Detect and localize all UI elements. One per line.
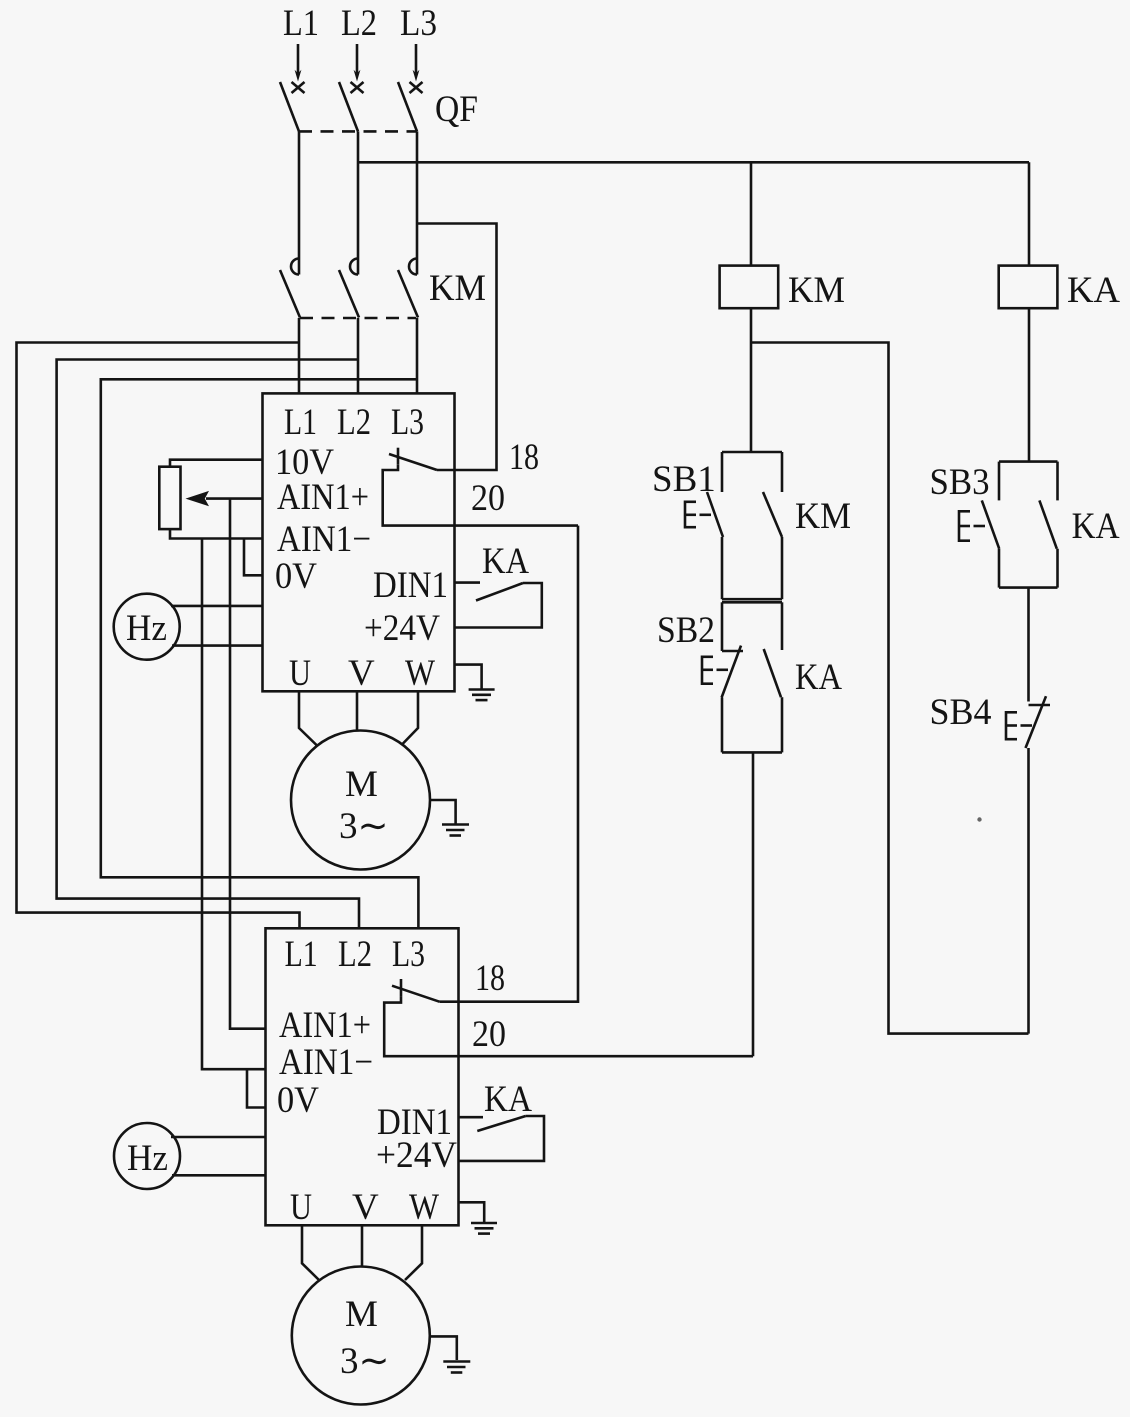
wire L2 from QF to KM <box>357 131 360 274</box>
svg-text:+24V: +24V <box>376 1135 457 1176</box>
pushbutton group SB1 bottom bar <box>722 598 782 601</box>
VFD1 DIN1 terminal stub <box>455 581 481 584</box>
KA aux contact (SB2 group) bottom stub <box>781 697 784 752</box>
svg-text:KM: KM <box>788 270 845 311</box>
wire L2 from KM to VFD1 <box>357 318 360 394</box>
SB2 fixed contact tick <box>722 650 743 653</box>
svg-text:L1: L1 <box>283 3 319 44</box>
KA aux contact (SB3 group) bottom stub <box>1056 549 1059 588</box>
ground VFD1 <box>455 665 495 701</box>
svg-text:L1: L1 <box>284 402 317 443</box>
pushbutton group SB1/KM top bar <box>722 451 782 454</box>
coil KM <box>720 266 779 309</box>
pushbutton group SB2 bottom bar <box>722 751 782 754</box>
wire Hz1 bottom lead <box>172 644 263 647</box>
KM aux contact top stub <box>781 452 784 492</box>
motor M1 body <box>291 731 430 870</box>
wire 0V jumper VFD2 <box>247 1069 266 1107</box>
contactor KM pole 2 <box>339 259 359 318</box>
relay contact KA at DIN1 (VFD2) blade <box>477 1116 525 1131</box>
breaker QF gang link (dashed) <box>299 130 416 133</box>
svg-text:20: 20 <box>472 1014 506 1055</box>
VFD1 inverter box <box>263 393 455 691</box>
motor M1 lead U <box>299 691 317 745</box>
wire VFD1 terminal 20 <box>383 465 578 526</box>
svg-text:KM: KM <box>429 268 486 309</box>
pushbutton group SB3 bottom bar <box>999 586 1058 589</box>
motor M1 lead W <box>402 691 418 744</box>
pushbutton group SB2 top bar <box>722 601 782 604</box>
wire L1 from QF to KM <box>298 131 301 274</box>
wire KA contact to +24V (VFD1) <box>455 583 542 628</box>
SB1 actuator E <box>684 501 711 529</box>
wire KM coil node to right return branch <box>751 343 1029 1034</box>
svg-text:AIN1−: AIN1− <box>277 519 371 560</box>
KA aux contact (SB2 group) top stub <box>781 602 784 650</box>
VFD1 run contact blade <box>389 454 437 470</box>
SB2 actuator E <box>701 656 728 686</box>
KM aux contact blade <box>763 492 782 537</box>
SB3 actuator E <box>958 510 985 542</box>
wire 0V jumper VFD1 <box>244 539 263 576</box>
svg-text:KA: KA <box>482 541 529 582</box>
svg-text:L3: L3 <box>392 934 425 975</box>
wire pot bottom to AIN1- <box>170 529 263 538</box>
supply arrow L1 <box>292 44 305 93</box>
meter Hz2 body <box>114 1123 180 1189</box>
wire Hz1 top lead <box>171 605 263 608</box>
wire KA contact to +24V (VFD2) <box>459 1116 545 1161</box>
svg-text:AIN1+: AIN1+ <box>279 1005 371 1046</box>
wire L1 branch to VFD2 <box>17 343 300 929</box>
svg-text:18: 18 <box>475 958 505 999</box>
potentiometer body <box>159 467 180 529</box>
KA aux contact (SB3 group) top stub <box>1056 462 1059 501</box>
SB4 blade (NC stop button) <box>1026 696 1047 748</box>
wire L3 from KM to VFD1 <box>416 318 419 394</box>
svg-text:QF: QF <box>435 89 478 130</box>
ground motor M1 <box>430 800 469 836</box>
VFD2 inverter box <box>266 928 459 1225</box>
wire KA coil to SB3 group <box>1028 308 1031 461</box>
svg-text:3∼: 3∼ <box>340 1341 390 1382</box>
wire L1 from KM to VFD1 <box>298 318 301 394</box>
relay contact KA at DIN1 (VFD1) blade <box>476 583 523 601</box>
SB4 fixed contact tick <box>1029 704 1051 707</box>
svg-text:W: W <box>409 1187 439 1228</box>
svg-text:M: M <box>345 1294 378 1335</box>
wire L3 branch to VFD2 <box>101 379 419 928</box>
svg-text:20: 20 <box>471 478 505 519</box>
ground motor M2 <box>430 1336 471 1372</box>
svg-text:AIN1−: AIN1− <box>279 1042 373 1083</box>
svg-text:SB2: SB2 <box>657 610 715 651</box>
svg-text:L2: L2 <box>337 402 371 443</box>
motor M1 lead V <box>356 691 359 731</box>
breaker QF pole 3 blade <box>398 82 417 131</box>
svg-text:Hz: Hz <box>127 1138 168 1179</box>
breaker QF pole 2 blade <box>339 82 358 131</box>
SB4 bottom wire <box>1027 748 1030 1034</box>
contactor KM pole 3 <box>398 259 418 318</box>
VFD2 DIN1 terminal stub <box>459 1116 484 1119</box>
KA aux contact (SB2 group) blade <box>764 649 781 697</box>
KM aux contact bottom stub <box>781 537 784 599</box>
svg-text:DIN1: DIN1 <box>373 565 448 606</box>
svg-text:L1: L1 <box>285 934 318 975</box>
coil KA <box>999 266 1058 309</box>
svg-text:KA: KA <box>484 1079 532 1120</box>
svg-text:18: 18 <box>509 437 539 478</box>
svg-text:M: M <box>345 764 378 805</box>
SB3 blade (NO start button) <box>982 500 999 548</box>
svg-text:W: W <box>405 653 435 694</box>
wire VFD1 20 to VFD2 18 riser <box>439 526 578 1002</box>
svg-text:KM: KM <box>795 496 851 537</box>
wire control supply rail (from L2 to KA branch) <box>358 161 1029 164</box>
potentiometer wire 10V to top <box>170 460 263 467</box>
SB2 bottom stub <box>721 698 724 753</box>
svg-text:L2: L2 <box>341 3 377 44</box>
wire VFD1 terminal 18 to L3 tap <box>417 224 497 471</box>
VFD1 run contact fixed tick <box>397 448 400 465</box>
svg-text:KA: KA <box>1067 270 1120 311</box>
svg-text:V: V <box>352 1187 379 1228</box>
svg-text:AIN1+: AIN1+ <box>277 477 369 518</box>
SB1 bottom stub <box>721 537 724 599</box>
VFD2 run contact blade <box>392 986 439 1002</box>
VFD2 run contact fixed tick <box>400 979 403 996</box>
SB1 blade (NO start button) <box>707 492 723 537</box>
svg-text:KA: KA <box>1072 506 1120 547</box>
pushbutton group SB3 top bar <box>999 460 1058 463</box>
breaker QF pole 1 blade <box>280 82 299 131</box>
svg-text:Hz: Hz <box>126 608 167 649</box>
motor M2 body <box>292 1267 430 1405</box>
wire AIN1+ to VFD2 AIN1+ <box>230 499 266 1029</box>
wire L2 branch to VFD2 <box>57 360 359 929</box>
supply arrow L3 <box>410 44 423 93</box>
contactor KM gang link (dashed) <box>300 317 416 320</box>
motor M2 lead V <box>361 1225 364 1266</box>
svg-text:SB4: SB4 <box>930 692 992 733</box>
motor M2 lead U <box>302 1225 319 1280</box>
svg-text:3∼: 3∼ <box>339 806 389 847</box>
wire Hz2 top lead <box>171 1136 266 1139</box>
SB2 blade (NC stop button) <box>722 646 741 698</box>
svg-text:+24V: +24V <box>364 608 440 649</box>
potentiometer wiper arrow <box>186 491 263 506</box>
svg-text:U: U <box>289 653 311 694</box>
svg-text:SB3: SB3 <box>930 462 990 503</box>
ground VFD2 <box>459 1202 498 1233</box>
svg-text:L3: L3 <box>391 402 424 443</box>
SB3 top stub <box>998 462 1001 501</box>
SB2 top stub <box>721 602 724 651</box>
SB4 actuator E <box>1005 711 1032 741</box>
svg-text:V: V <box>348 653 375 694</box>
svg-text:KA: KA <box>795 657 842 698</box>
meter Hz1 body <box>114 594 180 660</box>
wire terminal 20 to SB2 bottom <box>752 752 755 1056</box>
svg-text:U: U <box>290 1187 312 1228</box>
svg-text:L2: L2 <box>338 934 372 975</box>
wire L3 from QF to KM <box>416 131 419 274</box>
SB1 top stub <box>721 452 724 492</box>
wire SB3 group to SB4 <box>1027 588 1030 702</box>
svg-text:0V: 0V <box>275 556 317 597</box>
contactor KM pole 1 <box>280 259 300 318</box>
svg-text:L3: L3 <box>400 3 437 44</box>
svg-text:0V: 0V <box>277 1080 319 1121</box>
KA aux contact (SB3 group) blade <box>1039 500 1056 548</box>
stray ink speck <box>977 817 981 821</box>
wire AIN1- to VFD2 AIN1- <box>202 539 266 1070</box>
motor M2 lead W <box>405 1225 422 1280</box>
svg-text:SB1: SB1 <box>652 459 716 500</box>
SB3 bottom stub <box>998 549 1001 588</box>
wire supply to KA coil <box>1028 162 1031 265</box>
wire supply to KM coil <box>750 162 753 265</box>
wire VFD2 terminal 20 <box>384 996 753 1056</box>
wire Hz2 bottom lead <box>172 1174 266 1177</box>
wire KM coil to SB1 group <box>750 308 753 452</box>
supply arrow L2 <box>351 44 364 93</box>
